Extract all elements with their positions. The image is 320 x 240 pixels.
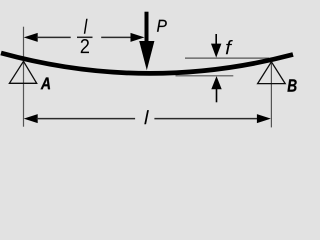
upper reference line (undeflected chord) for f — [185, 57, 269, 59]
dimension f: upper arrowhead (points down to chord line) — [211, 44, 221, 58]
dimension l/2: right line segment — [101, 36, 133, 38]
load arrow P (head) — [139, 41, 154, 70]
dimension l/2: fraction bar — [77, 36, 93, 38]
support A triangle — [9, 61, 36, 83]
dimension l/2: right arrowhead — [131, 33, 145, 42]
dimension l: left arrowhead — [24, 114, 38, 123]
dimension l/2: fraction denominator 2 — [81, 39, 89, 53]
label P — [157, 20, 167, 32]
extension line at support A — [23, 27, 25, 127]
dimension l: left line segment — [37, 118, 136, 120]
support B triangle — [258, 62, 286, 84]
dimension l/2: left line segment — [37, 36, 71, 38]
dimension l/2: fraction numerator l — [84, 19, 88, 34]
load arrow P (shaft) — [145, 12, 149, 44]
label B — [287, 79, 296, 91]
beam (deflected) — [1, 53, 293, 73]
label A — [41, 78, 50, 90]
lower reference line (tangent at midspan) for f — [176, 75, 234, 77]
dimension l: label l — [144, 110, 149, 124]
extension line at support B — [270, 62, 272, 128]
dimension f: lower arrow shaft — [216, 89, 218, 103]
dimension l: right line segment — [154, 118, 258, 120]
dimension l: right arrowhead — [257, 114, 271, 123]
dimension f: lower arrowhead (points up to tangent line) — [211, 76, 221, 89]
dimension f: upper arrow shaft — [215, 34, 217, 45]
label f — [226, 40, 233, 54]
dimension l/2: left arrowhead — [24, 33, 38, 42]
